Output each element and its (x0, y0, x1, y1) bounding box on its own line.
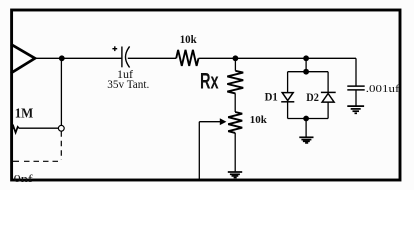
dashed wire: terminal down (60, 131, 62, 160)
potentiometer R3 10k (vertical zigzag) (228, 112, 242, 133)
wire: 1M to terminal circle (19, 127, 59, 129)
svg-text:10k: 10k (250, 114, 268, 126)
svg-text:10k: 10k (180, 34, 198, 46)
ground (under C2) (347, 106, 364, 113)
border frame (12, 10, 400, 180)
wire: pot bottom to ground (234, 133, 236, 172)
wire: node C down to diode pair top rail (305, 58, 307, 71)
diode D2 (cathode top, anode bottom) (321, 92, 336, 102)
svg-text:.001uf: .001uf (366, 83, 400, 95)
svg-text:1M: 1M (15, 106, 34, 121)
op-amp U1 (output stage, clipped at left frame) (11, 44, 35, 73)
wire: solid stub at frame (12, 160, 20, 162)
ground (under diode pair) (299, 137, 313, 143)
node junction dot B (top of Rx) (233, 55, 239, 61)
dashed wire: corner to left frame (21, 160, 58, 162)
wire: D2 top lead (327, 72, 329, 93)
wire: node B down to Rx (234, 58, 236, 71)
diode D1 (anode top, cathode bottom) (281, 93, 294, 102)
resistor Rx (vertical zigzag) (227, 71, 243, 94)
wire: D2 bottom lead (327, 102, 329, 118)
node junction dot E (diode bottom rail) (303, 116, 309, 122)
wire: main wire drop to capacitor C2 (355, 58, 357, 85)
wire: Rx to potentiometer R3 (234, 93, 236, 112)
svg-text:D2: D2 (306, 92, 319, 104)
wire: D1 top lead (287, 72, 289, 93)
wire: C2 to ground (355, 90, 357, 106)
ground (under potentiometer) (228, 172, 242, 178)
capacitor C1 plus sign (112, 46, 117, 51)
capacitor C1 1uf 35v tantalum (polarized) (122, 46, 130, 67)
node junction dot C (main wire above diodes) (303, 55, 309, 61)
wire: wiper down to bottom edge (198, 122, 200, 181)
wire: node A down to feedback terminal (60, 58, 62, 125)
svg-text:Rx: Rx (200, 69, 219, 94)
resistor R1 10k (horizontal zigzag) (176, 50, 198, 66)
wire: D1 bottom lead (287, 102, 289, 119)
wire: diode bottom rail (288, 118, 329, 120)
wire: op-amp output to capacitor C1 (35, 57, 122, 59)
node junction dot D (diode top rail) (303, 69, 309, 75)
svg-text:0nf: 0nf (14, 174, 34, 185)
svg-text:D1: D1 (265, 92, 278, 104)
wire: R1 to right end of main rail (199, 57, 357, 59)
wire: bottom rail to ground (305, 119, 307, 137)
wire: C1 to resistor R1 (128, 57, 176, 59)
potentiometer wiper arrow (199, 121, 221, 123)
wire: diode top rail (288, 71, 329, 73)
svg-text:35v Tant.: 35v Tant. (107, 77, 149, 91)
capacitor C2 .001uf (347, 86, 364, 90)
node junction dot A (output node) (59, 55, 65, 61)
terminal node (open circle) (58, 125, 64, 131)
resistor R4 1M (clipped zigzag tail at frame) (12, 126, 19, 132)
